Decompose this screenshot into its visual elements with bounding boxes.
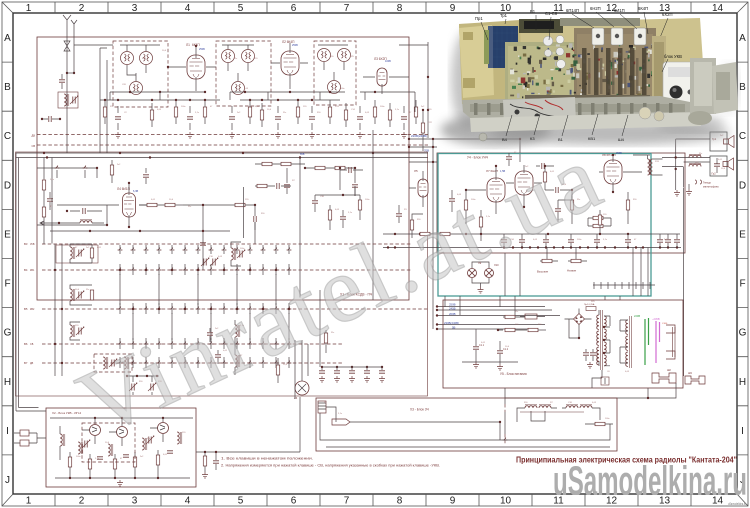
osc variable inductors L11 L12 bbox=[231, 248, 236, 260]
wires box1 bbox=[120, 45, 160, 81]
speaker box Gr1 bbox=[710, 132, 727, 151]
svg-text:230В(240В): 230В(240В) bbox=[444, 321, 459, 325]
tone pots bbox=[542, 259, 552, 262]
svg-text:10: 10 bbox=[500, 496, 512, 507]
svg-text:D: D bbox=[4, 180, 11, 191]
wires V1 bbox=[168, 46, 216, 91]
svg-text:Л4 6И1П: Л4 6И1П bbox=[117, 187, 131, 191]
block X2 UKV outline bbox=[46, 408, 196, 487]
IF can L6 bbox=[242, 50, 255, 63]
resistor under row1 at x=375 bbox=[373, 107, 376, 117]
speaker symbol Gr2 bbox=[723, 158, 734, 170]
T1 primary winding bbox=[597, 315, 599, 329]
resistor UKV at 135 bbox=[133, 457, 136, 467]
svg-text:В5: В5 bbox=[24, 307, 28, 311]
svg-text:1. Все клавиши в ненажатом пол: 1. Все клавиши в ненажатом положении. bbox=[221, 456, 313, 461]
svg-text:100к: 100к bbox=[577, 239, 581, 241]
svg-text:ДВ: ДВ bbox=[32, 134, 36, 138]
tube V5 6X2P agc bbox=[418, 179, 428, 197]
svg-text:8: 8 bbox=[397, 496, 403, 507]
capacitor under row1 at x=190 bbox=[187, 117, 193, 119]
T1 taps bbox=[604, 316, 610, 366]
svg-text:51к: 51к bbox=[234, 58, 237, 60]
resistor under row1 at x=346 bbox=[344, 110, 347, 120]
svg-text:uSamodelkina.ru: uSamodelkina.ru bbox=[728, 502, 746, 506]
svg-text:51к: 51к bbox=[86, 289, 89, 291]
left bias column bbox=[42, 180, 45, 190]
grid row letters A-J left bbox=[4, 33, 12, 486]
svg-text:ДВ: ДВ bbox=[30, 362, 34, 365]
tape jack bbox=[695, 180, 702, 184]
svg-text:9: 9 bbox=[450, 496, 456, 507]
svg-text:51к: 51к bbox=[283, 112, 286, 114]
svg-text:100В: 100В bbox=[385, 60, 391, 63]
svg-text:C: C bbox=[4, 131, 11, 142]
transformer T1b windings bbox=[630, 316, 632, 368]
converter plate load R13 bbox=[110, 165, 113, 175]
tube V8 6P14P output bbox=[604, 160, 622, 184]
svg-text:51к: 51к bbox=[147, 438, 150, 440]
agc cap bbox=[83, 208, 85, 214]
IF coupling components row bbox=[257, 184, 267, 187]
tone network caps bbox=[555, 209, 561, 211]
switch linkage bbox=[504, 434, 506, 444]
coil L1 input can bbox=[58, 92, 78, 108]
verticals x320/x295 bbox=[295, 290, 320, 399]
trimmers bbox=[82, 440, 90, 448]
svg-text:B: B bbox=[739, 82, 746, 93]
coil group L17 L18 bbox=[70, 325, 75, 337]
resistor R40 bbox=[505, 315, 515, 318]
svg-text:К3: К3 bbox=[530, 136, 535, 141]
left riser wires to UKV block bbox=[16, 153, 19, 411]
resistor under row1 at x=105 bbox=[103, 107, 106, 117]
svg-text:6Х2П: 6Х2П bbox=[662, 12, 672, 17]
capacitor under row1 at x=232 bbox=[229, 117, 235, 119]
wires to amplifier block bbox=[409, 139, 520, 329]
terminal strip bbox=[593, 284, 655, 286]
capacitor C55 in speaker box bbox=[714, 164, 720, 166]
coupling cap C51 bbox=[556, 187, 558, 193]
svg-text:100к: 100к bbox=[181, 106, 185, 108]
svg-text:3: 3 bbox=[132, 3, 138, 14]
svg-text:С1.1: С1.1 bbox=[479, 344, 485, 347]
switch row dashed lines bbox=[42, 244, 428, 363]
ukv dashed subbox bbox=[82, 423, 135, 462]
svg-text:В1: В1 bbox=[530, 9, 536, 14]
svg-text:Л1: Л1 bbox=[186, 43, 190, 47]
capacitor under row1 at x=360 bbox=[357, 117, 363, 119]
power transformer T1 core bbox=[601, 310, 603, 370]
svg-text:В1: В1 bbox=[558, 137, 564, 142]
svg-text:5: 5 bbox=[238, 3, 244, 14]
svg-text:Пр1: Пр1 bbox=[475, 16, 483, 21]
svg-text:2: 2 bbox=[79, 496, 85, 507]
svg-text:C: C bbox=[739, 131, 746, 142]
node antenna junction bbox=[66, 72, 68, 74]
svg-text:14: 14 bbox=[712, 3, 724, 14]
resistor under row1 at x=330 bbox=[328, 107, 331, 117]
coil L10 bbox=[328, 81, 341, 94]
return wire to PS sockets bbox=[683, 188, 685, 376]
switch inter-row links bbox=[120, 274, 289, 340]
AM bus wires bbox=[16, 153, 428, 158]
svg-text:Ш2: Ш2 bbox=[667, 368, 671, 372]
svg-text:Ш3: Ш3 bbox=[688, 371, 692, 375]
verticals amp to transformer bbox=[505, 248, 648, 301]
svg-text:Тр1: Тр1 bbox=[500, 13, 508, 18]
svg-text:В3: В3 bbox=[24, 242, 28, 246]
svg-text:100к: 100к bbox=[240, 248, 244, 250]
svg-text:6П14П: 6П14П bbox=[566, 8, 579, 13]
svg-text:магнитофона: магнитофона bbox=[703, 186, 719, 189]
IF can L8 bbox=[318, 49, 331, 62]
svg-text:G: G bbox=[739, 328, 747, 339]
if coupling cap mid bbox=[349, 167, 351, 173]
resistor under row1 at x=152 bbox=[150, 110, 153, 120]
svg-text:Высокие: Высокие bbox=[537, 270, 549, 274]
svg-text:В4: В4 bbox=[24, 268, 28, 272]
ukv caps bbox=[97, 457, 103, 459]
capacitor C50 bbox=[449, 199, 455, 201]
svg-text:A: A bbox=[4, 33, 11, 44]
grid row ticks left/right bbox=[2, 62, 748, 455]
dashed box L8-L10 IF2 bbox=[314, 41, 356, 105]
block X3 ZCh outline bbox=[316, 398, 617, 451]
svg-text:УКВ: УКВ bbox=[30, 243, 35, 246]
svg-text:СВ: СВ bbox=[30, 343, 34, 346]
IF can L2 bbox=[121, 52, 134, 65]
switch column verticals bbox=[120, 245, 289, 368]
coil L4 bbox=[130, 82, 143, 95]
svg-text:КВ1: КВ1 bbox=[588, 136, 596, 141]
grid cap C21 bbox=[254, 216, 256, 222]
long vertical x373 bbox=[372, 130, 374, 300]
tube V4 6I1P converter bbox=[123, 193, 136, 217]
svg-text:51к: 51к bbox=[515, 311, 518, 313]
grid column numbers 1-14 top bbox=[26, 3, 724, 14]
mains plug pins bbox=[666, 325, 675, 359]
svg-text:1: 1 bbox=[26, 496, 32, 507]
grid column numbers 1-14 bottom bbox=[26, 496, 724, 507]
resistor UKV at 90 bbox=[88, 459, 91, 469]
caps C42 C43 bbox=[207, 333, 213, 335]
svg-text:КВ2: КВ2 bbox=[30, 308, 35, 311]
tube V2 6K4P bbox=[281, 51, 299, 75]
svg-text:КВ1: КВ1 bbox=[30, 269, 35, 272]
transistor VT1 bbox=[90, 425, 101, 436]
decoupling caps row bbox=[319, 371, 325, 373]
svg-text:Л5: Л5 bbox=[414, 169, 418, 173]
choke L30 bbox=[528, 328, 538, 331]
output wires with chokes bbox=[662, 158, 710, 167]
resistor R30 bbox=[464, 200, 467, 210]
caps under bridge bbox=[583, 353, 589, 355]
filter electrolytic C60 bbox=[473, 347, 479, 349]
osc vertical wire bbox=[243, 187, 245, 238]
resistor R26 bbox=[324, 333, 327, 343]
bottom run bbox=[326, 446, 610, 448]
svg-text:6,3В: 6,3В bbox=[133, 190, 138, 193]
svg-text:85В: 85В bbox=[300, 153, 305, 156]
speaker box Gr2 bbox=[710, 156, 727, 176]
svg-text:Пр1 0,25А: Пр1 0,25А bbox=[584, 303, 595, 306]
tube V7b 6N2P preamp triode 2 bbox=[515, 171, 533, 195]
svg-text:Гнездо: Гнездо bbox=[703, 182, 711, 185]
svg-text:В6: В6 bbox=[24, 342, 28, 346]
resistor under row1 at x=416 bbox=[414, 107, 417, 117]
svg-text:6: 6 bbox=[291, 3, 297, 14]
resistor under row1 at x=390 bbox=[388, 110, 391, 120]
svg-text:Низкие: Низкие bbox=[567, 269, 577, 273]
svg-text:У4 - Блок УНЧ: У4 - Блок УНЧ bbox=[467, 156, 488, 160]
svg-text:8: 8 bbox=[397, 3, 403, 14]
IF can L3 bbox=[140, 52, 153, 65]
svg-text:J: J bbox=[5, 475, 10, 486]
svg-text:250В: 250В bbox=[292, 44, 298, 47]
component value labels bbox=[50, 50, 726, 460]
svg-text:6Н2П: 6Н2П bbox=[590, 6, 601, 11]
svg-text:Л6: Л6 bbox=[294, 396, 298, 400]
motor transformer T4 bbox=[525, 405, 537, 408]
resistor R31 bbox=[479, 217, 482, 227]
cap C30 bbox=[396, 214, 402, 216]
resistor R20 bbox=[421, 123, 424, 133]
tuning indicator V6 bbox=[295, 381, 309, 395]
svg-text:4: 4 bbox=[185, 3, 191, 14]
resistor R32 plate bbox=[543, 172, 546, 182]
bus wire 200В bbox=[437, 315, 560, 317]
input coil L40 bbox=[60, 434, 65, 446]
capacitor under row1 at x=118 bbox=[115, 117, 121, 119]
svg-text:F: F bbox=[4, 279, 10, 290]
bus wire 245В bbox=[437, 309, 552, 311]
dipole antenna input bbox=[20, 430, 29, 436]
green mains lines bbox=[645, 318, 649, 365]
antenna WA1 bbox=[63, 15, 77, 28]
svg-text:I: I bbox=[6, 426, 9, 437]
block U4 UNCh outline bbox=[437, 153, 685, 253]
svg-text:5,1к: 5,1к bbox=[50, 179, 54, 181]
svg-text:250В: 250В bbox=[199, 48, 205, 51]
screen resistor R34 bbox=[626, 200, 629, 210]
resistor R45 bbox=[595, 422, 605, 425]
svg-text:7: 7 bbox=[344, 3, 350, 14]
socket Sh3 bbox=[685, 376, 705, 384]
fuse FU2 bbox=[586, 307, 596, 311]
row1 ground ticks bbox=[115, 132, 121, 138]
svg-text:51к: 51к bbox=[188, 206, 191, 208]
verticals teal box to bus bbox=[445, 296, 515, 315]
svg-text:9: 9 bbox=[450, 3, 456, 14]
tuning gang capacitors C40 C41 bbox=[129, 383, 137, 391]
svg-text:E: E bbox=[739, 230, 746, 241]
wires row2 bbox=[37, 168, 107, 225]
ground bus ps bbox=[462, 361, 518, 363]
resistor R25 bbox=[276, 365, 279, 375]
filter electrolytic C61 bbox=[497, 351, 503, 353]
wire antenna down bbox=[67, 25, 74, 153]
svg-text:5,1к: 5,1к bbox=[603, 239, 607, 241]
svg-text:5,1к: 5,1к bbox=[338, 413, 342, 415]
resistor R33 bbox=[570, 200, 573, 210]
svg-text:4: 4 bbox=[185, 496, 191, 507]
svg-text:5В: 5В bbox=[452, 325, 456, 329]
junction dots matrix bbox=[119, 269, 121, 271]
svg-text:6К4П: 6К4П bbox=[638, 6, 648, 11]
capacitor under row1 at x=278 bbox=[275, 117, 281, 119]
socket Sh2 bbox=[652, 373, 676, 383]
agc choke bbox=[80, 220, 92, 223]
resistor R12 bbox=[235, 203, 245, 206]
bus wire 250В bbox=[437, 306, 545, 308]
svg-text:В7: В7 bbox=[24, 361, 28, 365]
svg-text:G: G bbox=[4, 328, 12, 339]
ukv ground bus bbox=[55, 477, 190, 479]
svg-text:1: 1 bbox=[26, 3, 32, 14]
amp inner wire row bbox=[383, 233, 680, 235]
coils L41 L42 L43 bbox=[78, 442, 83, 454]
feedback resistors bbox=[593, 216, 603, 219]
bridge rectifier VD1-VD4 bbox=[574, 314, 585, 325]
cathode resistor R35 bbox=[598, 215, 601, 225]
svg-text:100к: 100к bbox=[365, 199, 369, 201]
row2 extra network bbox=[312, 201, 318, 203]
svg-text:E: E bbox=[4, 230, 11, 241]
transistor VT3 bbox=[158, 423, 169, 434]
IF can L9 bbox=[338, 49, 351, 62]
dashed coil box DV bbox=[94, 354, 132, 372]
fuse FU1 bbox=[525, 314, 537, 319]
svg-text:СВ: СВ bbox=[32, 144, 36, 148]
svg-text:100к: 100к bbox=[76, 456, 80, 458]
band key switches top bbox=[55, 166, 60, 169]
transistor VT2 bbox=[117, 427, 128, 438]
svg-text:I: I bbox=[741, 426, 744, 437]
svg-text:Гр2: Гр2 bbox=[712, 172, 717, 176]
coil group L15 L16 bbox=[70, 289, 75, 301]
coil group L13 L14 with trimmers bbox=[56, 245, 98, 263]
svg-text:100к: 100к bbox=[605, 418, 609, 420]
vertical links left bbox=[55, 244, 62, 376]
osc coils L20 L21 bbox=[235, 325, 240, 337]
resistor R10 bbox=[147, 203, 157, 206]
block U5 power supply outline bbox=[443, 300, 683, 388]
capacitor under row1 at x=404 bbox=[401, 117, 407, 119]
svg-text:5,1к: 5,1к bbox=[348, 212, 352, 214]
row1 inter-stage verticals bbox=[110, 92, 415, 112]
trimmer C2 bbox=[70, 96, 78, 104]
tube V3 6X2P detector bbox=[377, 68, 387, 86]
ukv top rail bbox=[50, 417, 193, 419]
svg-text:5: 5 bbox=[238, 496, 244, 507]
svg-text:С1-С6: С1-С6 bbox=[545, 11, 558, 16]
resistors on row bbox=[420, 232, 430, 235]
keyboard switch contacts bbox=[118, 248, 123, 251]
bus wire 5В bbox=[437, 328, 536, 330]
AGC line bbox=[50, 230, 230, 232]
svg-text:Х2 - Блок УКВ - ИП-2: Х2 - Блок УКВ - ИП-2 bbox=[52, 411, 82, 415]
svg-text:Ш4: Ш4 bbox=[618, 137, 625, 142]
svg-text:H: H bbox=[739, 377, 746, 388]
svg-text:Х3 - Блок ЗЧ: Х3 - Блок ЗЧ bbox=[410, 408, 429, 412]
svg-text:220В(240В): 220В(240В) bbox=[411, 134, 427, 138]
capacitor under row1 at x=312 bbox=[309, 117, 315, 119]
svg-text:220В: 220В bbox=[634, 314, 640, 318]
svg-text:С1.2: С1.2 bbox=[503, 348, 509, 351]
svg-text:3: 3 bbox=[132, 496, 138, 507]
svg-text:В4: В4 bbox=[502, 137, 508, 142]
svg-text:D: D bbox=[739, 180, 746, 191]
resistor under row1 at x=205 bbox=[203, 107, 206, 117]
svg-text:5,1к: 5,1к bbox=[95, 458, 99, 460]
dashed box L2/L3 input bandfilter bbox=[113, 41, 168, 107]
svg-text:6И1П: 6И1П bbox=[614, 8, 625, 13]
svg-text:H: H bbox=[4, 377, 11, 388]
svg-text:B: B bbox=[4, 82, 11, 93]
svg-text:245В: 245В bbox=[449, 307, 456, 311]
svg-text:250В: 250В bbox=[616, 152, 622, 155]
ground bus with caps bbox=[383, 247, 681, 249]
interstage caps bbox=[506, 157, 512, 159]
dashed box L5-L7 IF1 bbox=[216, 41, 271, 106]
teal highlight box bbox=[438, 154, 651, 297]
resistor R41 bbox=[505, 328, 515, 331]
svg-text:100к: 100к bbox=[380, 106, 384, 108]
tuner section outline bbox=[16, 152, 428, 396]
screen cap C23 bbox=[143, 175, 149, 177]
magenta mains lines bbox=[656, 321, 660, 363]
svg-text:5,1к: 5,1к bbox=[395, 109, 399, 111]
svg-text:2. Напряжения измеряются при н: 2. Напряжения измеряются при нажатой кла… bbox=[221, 463, 440, 468]
capacitor C1 bbox=[59, 80, 65, 82]
resistor UKV at 115 bbox=[113, 459, 116, 469]
right vertical feed wire bbox=[399, 42, 428, 138]
motor transformer T5 bbox=[566, 405, 578, 408]
band bus dashed lines bbox=[37, 135, 428, 146]
ground near jack bbox=[674, 190, 680, 196]
bus wire 230В(240В) bbox=[437, 324, 545, 326]
coil L7 bbox=[232, 82, 245, 95]
output cluster right of ukv bbox=[196, 397, 300, 452]
svg-text:5,1к: 5,1к bbox=[195, 112, 199, 114]
svg-text:F: F bbox=[739, 279, 745, 290]
watermark Vinratel.at.ua bbox=[63, 125, 614, 456]
IF can L5 bbox=[222, 50, 235, 63]
capacitor C3 horizontal bbox=[42, 118, 60, 120]
long vertical x300 bbox=[299, 158, 301, 298]
RF input verticals bbox=[74, 45, 113, 153]
pickup connector bbox=[318, 401, 326, 413]
svg-text:100к: 100к bbox=[340, 88, 344, 90]
row1 lower bus bbox=[100, 99, 340, 101]
svg-text:блок УКВ: блок УКВ bbox=[664, 54, 682, 59]
resistor R21 bbox=[410, 220, 413, 230]
link ukv to tuner bbox=[16, 408, 46, 412]
svg-text:200В: 200В bbox=[449, 312, 456, 316]
resistor UKV at 158 bbox=[156, 455, 159, 465]
chassis photo top right bbox=[440, 6, 739, 146]
row2 right resistors bbox=[262, 162, 272, 165]
dial lamps HL1 HL2 bbox=[468, 269, 477, 278]
output transformer T2 bbox=[648, 159, 653, 175]
speaker symbol Gr1 bbox=[724, 136, 735, 148]
svg-text:51к: 51к bbox=[699, 153, 702, 155]
resistor R11 bbox=[165, 203, 175, 206]
ps bottom links bbox=[505, 370, 605, 434]
svg-text:A: A bbox=[739, 33, 746, 44]
arrow plug bbox=[332, 419, 350, 425]
